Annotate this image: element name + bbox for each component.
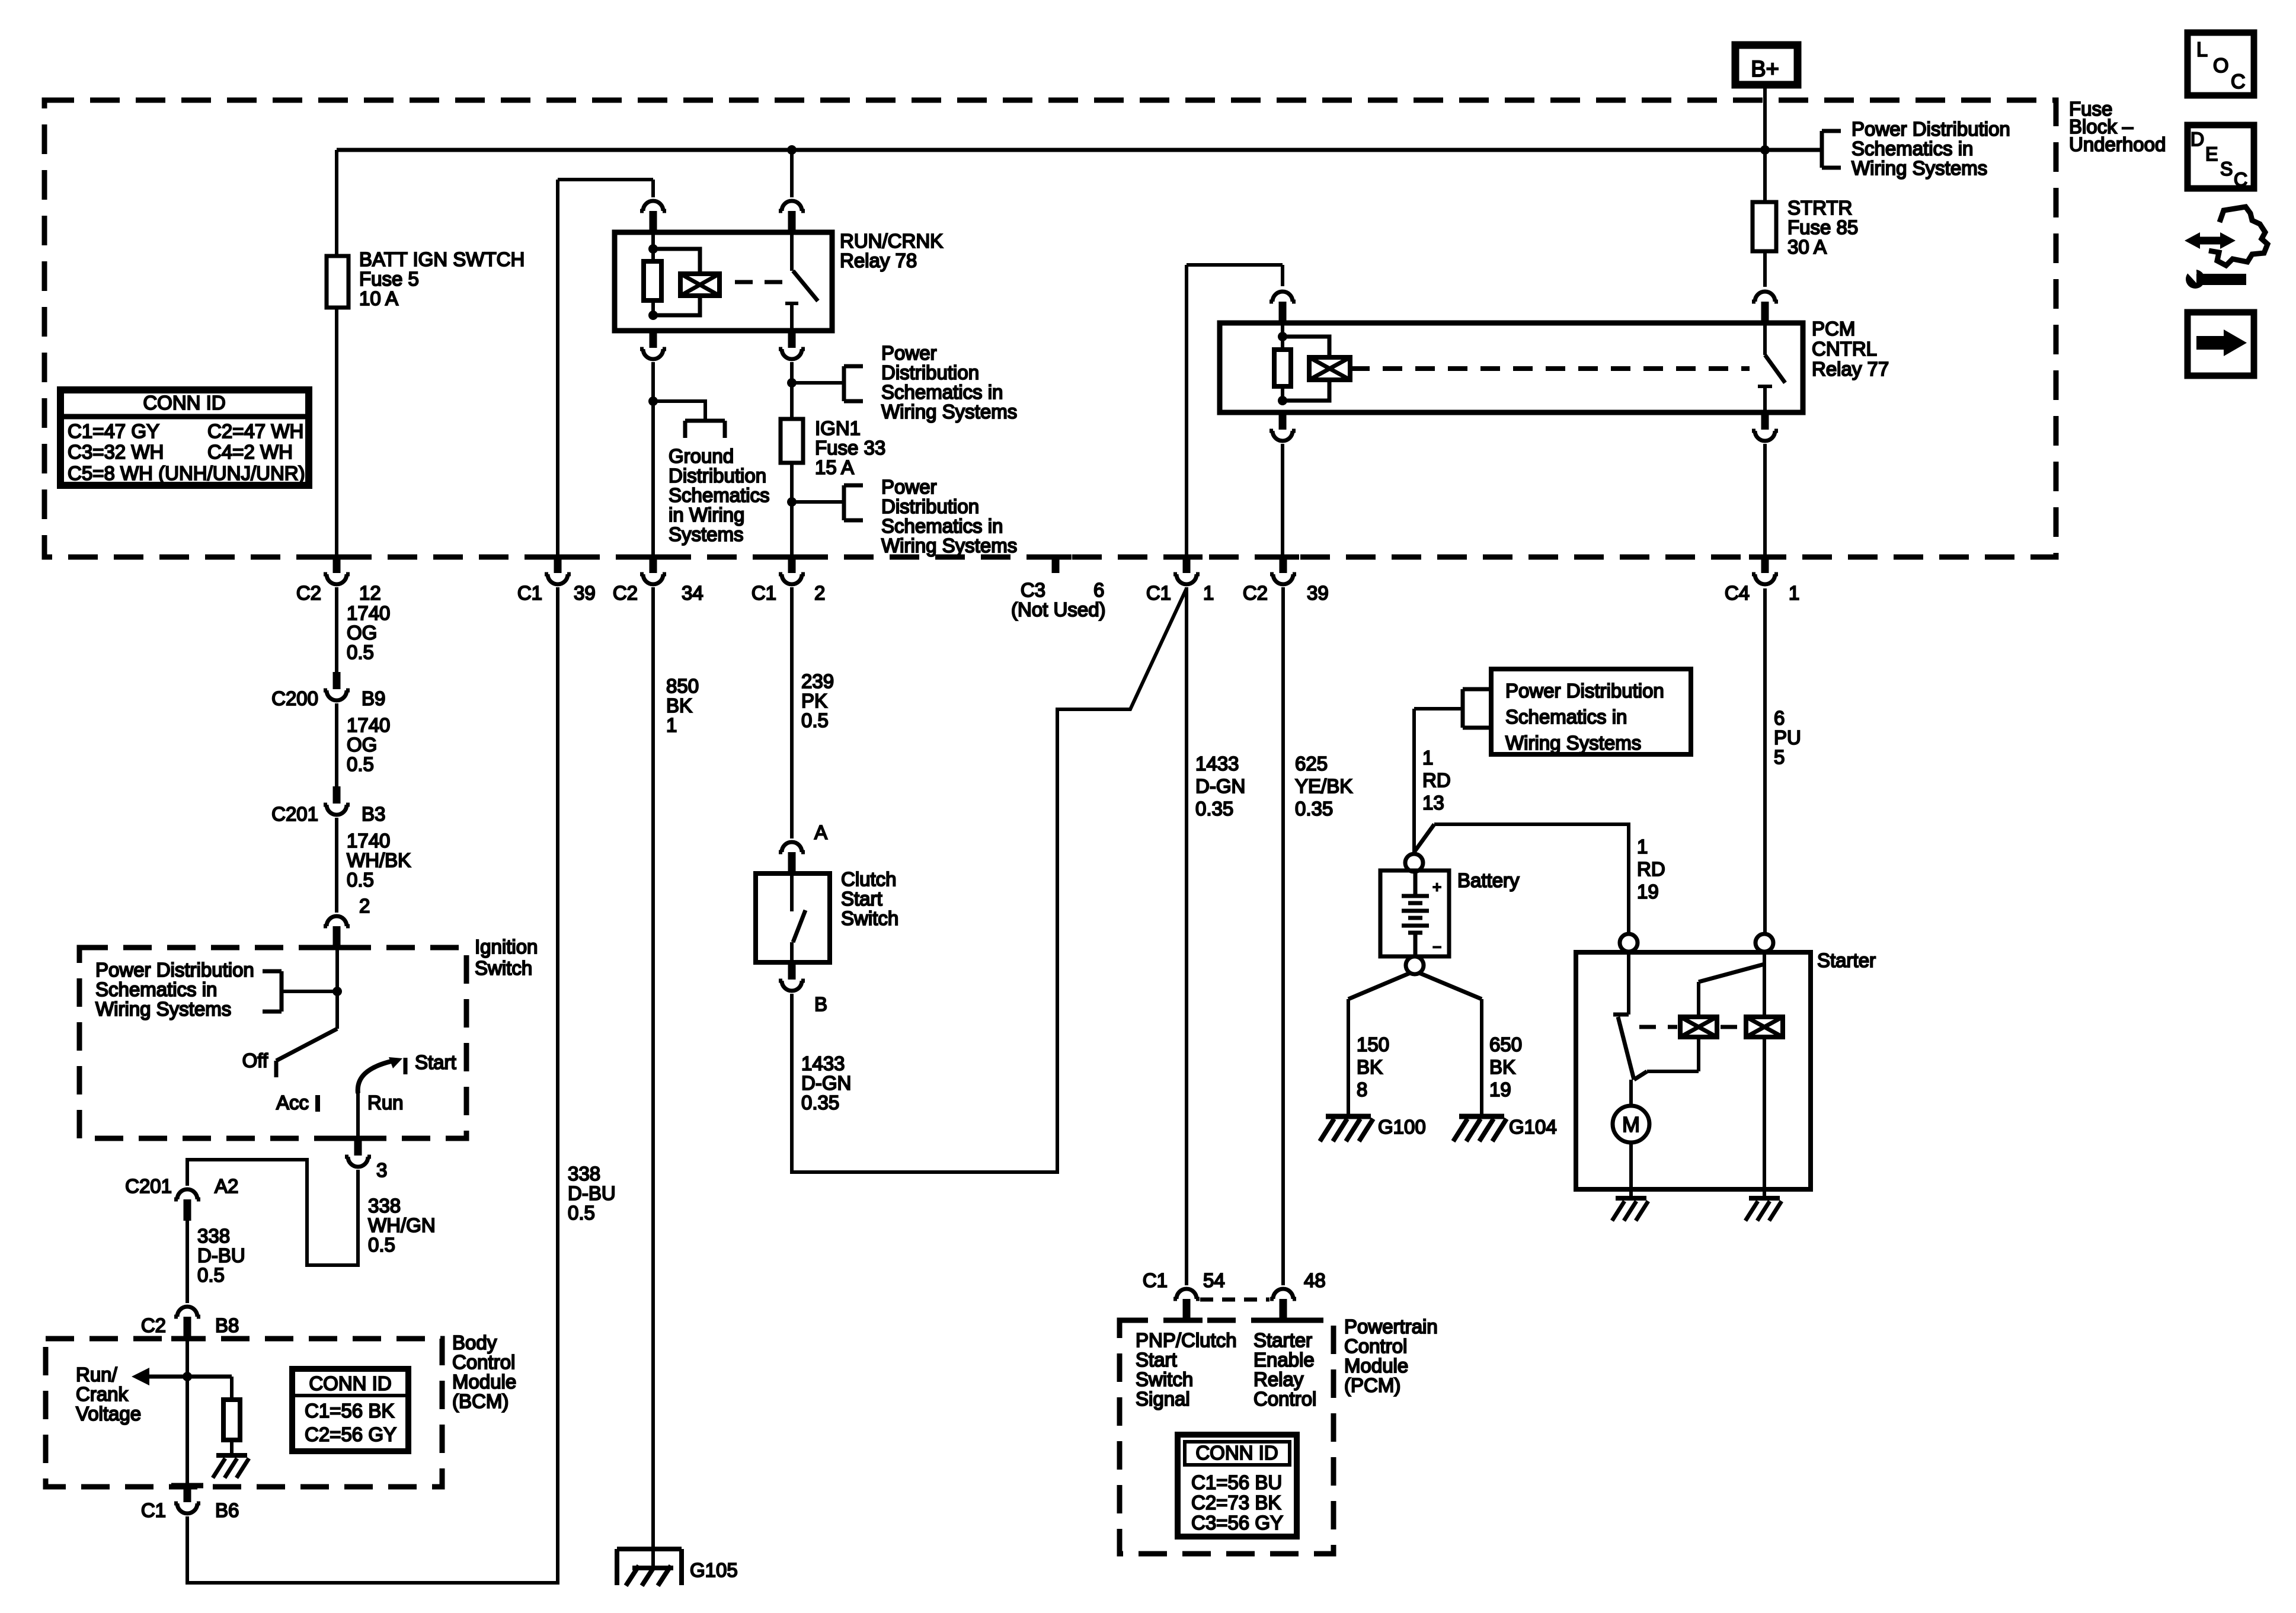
svg-text:39: 39	[1307, 582, 1329, 604]
svg-text:−: −	[1432, 938, 1441, 956]
svg-text:C1=56 BK: C1=56 BK	[305, 1400, 394, 1422]
svg-text:D-BU: D-BU	[197, 1244, 245, 1266]
svg-text:Starter: Starter	[1817, 949, 1876, 971]
svg-text:338: 338	[197, 1225, 230, 1247]
svg-text:C4=2 WH: C4=2 WH	[207, 441, 293, 463]
svg-text:C2=56 GY: C2=56 GY	[305, 1423, 396, 1445]
svg-text:RD: RD	[1637, 858, 1665, 880]
svg-text:Power Distribution: Power Distribution	[95, 959, 254, 981]
svg-text:Underhood: Underhood	[2069, 133, 2166, 155]
svg-text:C3=32 WH: C3=32 WH	[68, 441, 164, 463]
svg-text:Wiring Systems: Wiring Systems	[95, 998, 231, 1020]
svg-text:8: 8	[1357, 1078, 1367, 1100]
svg-text:Power: Power	[881, 342, 937, 364]
svg-text:C1: C1	[517, 582, 542, 604]
svg-text:(BCM): (BCM)	[452, 1390, 509, 1412]
svg-text:Switch: Switch	[475, 957, 532, 979]
svg-text:D-GN: D-GN	[1195, 775, 1245, 797]
svg-text:19: 19	[1637, 881, 1659, 902]
svg-text:B3: B3	[362, 803, 385, 825]
svg-text:0.5: 0.5	[568, 1202, 595, 1224]
svg-text:Schematics in: Schematics in	[881, 381, 1003, 403]
svg-text:1: 1	[666, 714, 677, 736]
svg-text:10 A: 10 A	[359, 287, 398, 309]
svg-text:1: 1	[1637, 836, 1648, 857]
svg-text:13: 13	[1422, 792, 1444, 814]
svg-text:Module: Module	[1344, 1355, 1408, 1377]
svg-text:1740: 1740	[347, 830, 390, 852]
svg-text:C1: C1	[1146, 582, 1171, 604]
svg-text:YE/BK: YE/BK	[1295, 775, 1352, 797]
svg-text:30 A: 30 A	[1787, 236, 1827, 258]
svg-text:338: 338	[568, 1163, 600, 1185]
svg-text:0.5: 0.5	[197, 1264, 225, 1286]
svg-text:O: O	[2213, 55, 2228, 77]
svg-text:Schematics in: Schematics in	[881, 515, 1003, 537]
svg-text:D-GN: D-GN	[801, 1072, 851, 1094]
svg-text:338: 338	[368, 1195, 401, 1217]
svg-text:Clutch: Clutch	[841, 868, 897, 890]
svg-text:G105: G105	[690, 1559, 738, 1581]
svg-text:Ignition: Ignition	[475, 936, 538, 958]
svg-text:2: 2	[814, 582, 825, 604]
svg-text:2: 2	[359, 895, 370, 917]
svg-text:0.35: 0.35	[1195, 798, 1233, 820]
svg-text:6: 6	[1093, 579, 1104, 601]
svg-text:Ground: Ground	[669, 445, 734, 467]
svg-text:Wiring Systems: Wiring Systems	[881, 401, 1017, 423]
svg-text:RD: RD	[1422, 769, 1451, 791]
svg-text:Start: Start	[415, 1051, 456, 1073]
svg-text:PNP/Clutch: PNP/Clutch	[1136, 1329, 1237, 1351]
svg-text:RUN/CRNK: RUN/CRNK	[840, 230, 943, 252]
svg-text:C1: C1	[752, 582, 776, 604]
svg-text:Distribution: Distribution	[881, 361, 979, 383]
svg-text:BK: BK	[666, 695, 692, 716]
svg-text:B: B	[814, 993, 827, 1015]
svg-text:BK: BK	[1357, 1056, 1383, 1078]
svg-text:G100: G100	[1378, 1116, 1426, 1138]
svg-text:Power: Power	[881, 476, 937, 498]
svg-text:B8: B8	[215, 1314, 239, 1336]
svg-text:C201: C201	[125, 1175, 172, 1197]
svg-text:19: 19	[1489, 1078, 1511, 1100]
svg-text:B+: B+	[1751, 57, 1779, 82]
svg-text:C: C	[2234, 169, 2247, 190]
svg-text:1433: 1433	[801, 1052, 845, 1074]
svg-text:5: 5	[1774, 746, 1785, 768]
svg-text:Starter: Starter	[1253, 1329, 1312, 1351]
svg-text:Crank: Crank	[76, 1383, 129, 1405]
svg-text:6: 6	[1774, 707, 1785, 729]
svg-text:BK: BK	[1489, 1056, 1515, 1078]
svg-text:239: 239	[801, 670, 834, 692]
svg-text:0.5: 0.5	[801, 709, 829, 731]
svg-text:C2: C2	[613, 582, 638, 604]
svg-text:Battery: Battery	[1457, 869, 1520, 891]
svg-text:BATT IGN SWTCH: BATT IGN SWTCH	[359, 248, 525, 270]
svg-text:Start: Start	[1136, 1349, 1177, 1371]
svg-text:Wiring Systems: Wiring Systems	[881, 535, 1017, 556]
svg-text:1: 1	[1789, 582, 1799, 604]
svg-text:Distribution: Distribution	[669, 465, 766, 487]
svg-text:0.5: 0.5	[347, 753, 374, 775]
svg-text:Fuse 85: Fuse 85	[1787, 216, 1858, 238]
svg-text:Run/: Run/	[76, 1364, 118, 1385]
svg-text:C2: C2	[1243, 582, 1268, 604]
svg-text:1433: 1433	[1195, 753, 1239, 775]
svg-text:Systems: Systems	[669, 523, 744, 545]
svg-text:D-BU: D-BU	[568, 1182, 616, 1204]
svg-text:C1: C1	[1143, 1269, 1168, 1291]
svg-text:0.35: 0.35	[801, 1092, 839, 1113]
svg-text:1740: 1740	[347, 602, 390, 624]
svg-text:15 A: 15 A	[815, 456, 854, 478]
svg-text:48: 48	[1304, 1269, 1326, 1291]
svg-text:(Not Used): (Not Used)	[1011, 599, 1106, 620]
svg-text:Start: Start	[841, 888, 882, 910]
svg-text:C1=56 BU: C1=56 BU	[1191, 1471, 1282, 1493]
svg-text:625: 625	[1295, 753, 1328, 775]
svg-text:Switch: Switch	[1136, 1368, 1193, 1390]
svg-text:B6: B6	[215, 1499, 239, 1521]
svg-text:12: 12	[359, 582, 381, 604]
svg-text:IGN1: IGN1	[815, 417, 861, 439]
svg-text:Fuse 33: Fuse 33	[815, 437, 885, 459]
svg-text:in Wiring: in Wiring	[669, 504, 744, 526]
svg-text:C3: C3	[1021, 579, 1045, 601]
svg-text:Relay 77: Relay 77	[1812, 358, 1889, 380]
svg-text:PK: PK	[801, 690, 827, 712]
svg-text:+: +	[1432, 878, 1441, 896]
svg-text:Voltage: Voltage	[76, 1403, 141, 1425]
svg-text:Relay 78: Relay 78	[840, 249, 917, 271]
svg-text:Body: Body	[452, 1332, 497, 1353]
svg-text:STRTR: STRTR	[1787, 197, 1852, 219]
svg-text:S: S	[2220, 158, 2233, 180]
svg-text:Fuse 5: Fuse 5	[359, 268, 419, 290]
svg-text:C200: C200	[271, 687, 318, 709]
svg-text:3: 3	[376, 1159, 387, 1181]
svg-text:CNTRL: CNTRL	[1812, 338, 1877, 360]
svg-text:Power Distribution: Power Distribution	[1851, 118, 2010, 140]
svg-text:A: A	[814, 821, 827, 843]
svg-text:(PCM): (PCM)	[1344, 1374, 1400, 1396]
svg-text:Relay: Relay	[1253, 1368, 1304, 1390]
svg-text:L: L	[2196, 39, 2208, 61]
svg-text:Powertrain: Powertrain	[1344, 1316, 1438, 1337]
svg-text:C2: C2	[141, 1314, 166, 1336]
svg-text:Control: Control	[1344, 1335, 1407, 1357]
svg-text:PCM: PCM	[1812, 318, 1855, 340]
svg-text:Switch: Switch	[841, 907, 898, 929]
svg-text:C2=73 BK: C2=73 BK	[1191, 1492, 1281, 1513]
svg-text:Distribution: Distribution	[881, 495, 979, 517]
svg-text:Off: Off	[242, 1049, 268, 1071]
svg-text:Power Distribution: Power Distribution	[1505, 680, 1664, 702]
svg-text:Schematics in: Schematics in	[95, 978, 217, 1000]
svg-text:C3=56 GY: C3=56 GY	[1191, 1512, 1283, 1534]
svg-text:CONN ID: CONN ID	[309, 1372, 391, 1394]
svg-text:150: 150	[1357, 1033, 1389, 1055]
svg-text:A2: A2	[215, 1175, 238, 1197]
svg-text:OG: OG	[347, 734, 377, 756]
svg-text:WH/BK: WH/BK	[347, 849, 411, 871]
svg-text:C1: C1	[141, 1499, 166, 1521]
svg-text:Module: Module	[452, 1371, 516, 1393]
svg-text:Signal: Signal	[1136, 1388, 1190, 1410]
svg-text:C: C	[2231, 71, 2246, 93]
svg-text:850: 850	[666, 675, 699, 697]
svg-text:C201: C201	[271, 803, 318, 825]
svg-text:Control: Control	[1253, 1388, 1316, 1410]
svg-text:39: 39	[574, 582, 596, 604]
svg-text:WH/GN: WH/GN	[368, 1214, 436, 1236]
svg-text:Wiring Systems: Wiring Systems	[1505, 732, 1641, 754]
svg-text:Schematics in: Schematics in	[1505, 706, 1627, 728]
svg-text:Wiring Systems: Wiring Systems	[1851, 157, 1987, 179]
svg-text:0.5: 0.5	[347, 869, 374, 891]
svg-text:C1=47 GY: C1=47 GY	[68, 420, 159, 442]
svg-text:Schematics: Schematics	[669, 484, 770, 506]
svg-text:Run: Run	[367, 1092, 404, 1113]
svg-text:C5=8 WH (UNH/UNJ/UNR): C5=8 WH (UNH/UNJ/UNR)	[68, 462, 305, 484]
svg-text:34: 34	[682, 582, 703, 604]
svg-text:CONN ID: CONN ID	[143, 392, 225, 414]
svg-text:Control: Control	[452, 1351, 515, 1373]
svg-text:Schematics in: Schematics in	[1851, 137, 1973, 159]
svg-text:G104: G104	[1509, 1116, 1557, 1138]
svg-text:650: 650	[1489, 1033, 1522, 1055]
svg-text:C4: C4	[1725, 582, 1750, 604]
svg-text:D: D	[2191, 129, 2204, 150]
svg-text:Acc: Acc	[276, 1092, 309, 1113]
svg-text:CONN ID: CONN ID	[1195, 1442, 1278, 1464]
svg-text:M: M	[1622, 1112, 1640, 1137]
svg-text:Enable: Enable	[1253, 1349, 1315, 1371]
svg-text:0.35: 0.35	[1295, 798, 1333, 820]
svg-text:1: 1	[1203, 582, 1214, 604]
svg-text:B9: B9	[362, 687, 385, 709]
svg-text:E: E	[2205, 143, 2218, 165]
svg-text:54: 54	[1203, 1269, 1225, 1291]
svg-text:0.5: 0.5	[368, 1234, 395, 1256]
svg-text:C2=47 WH: C2=47 WH	[207, 420, 303, 442]
svg-text:PU: PU	[1774, 727, 1801, 748]
svg-text:1: 1	[1422, 747, 1433, 769]
svg-text:0.5: 0.5	[347, 641, 374, 663]
svg-text:1740: 1740	[347, 714, 390, 736]
svg-text:OG: OG	[347, 622, 377, 644]
svg-text:C2: C2	[296, 582, 321, 604]
